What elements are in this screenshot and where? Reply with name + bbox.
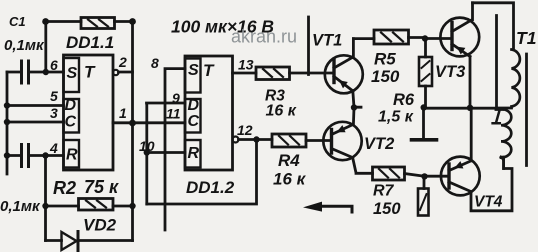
svg-text:R5: R5 — [374, 50, 396, 69]
svg-text:R: R — [188, 145, 200, 162]
svg-text:4: 4 — [49, 140, 58, 156]
svg-text:12: 12 — [237, 122, 253, 138]
svg-text:0,1мк: 0,1мк — [4, 37, 45, 54]
svg-text:R4: R4 — [278, 151, 300, 170]
svg-text:10: 10 — [139, 138, 155, 154]
svg-text:VD2: VD2 — [83, 216, 117, 235]
svg-text:1,5 к: 1,5 к — [378, 109, 414, 126]
svg-text:16 к: 16 к — [273, 170, 307, 189]
svg-text:150: 150 — [371, 67, 400, 86]
svg-text:6: 6 — [50, 57, 58, 73]
svg-text:R6: R6 — [393, 91, 415, 109]
svg-text:S: S — [67, 65, 78, 82]
svg-text:5: 5 — [50, 88, 58, 104]
svg-text:1: 1 — [119, 105, 127, 121]
svg-text:VT1: VT1 — [312, 32, 342, 50]
svg-text:75 к: 75 к — [84, 177, 119, 197]
svg-text:akran.ru: akran.ru — [231, 27, 297, 47]
svg-text:3: 3 — [50, 105, 58, 121]
svg-text:D: D — [65, 97, 77, 114]
svg-text:2: 2 — [118, 54, 127, 70]
svg-text:T: T — [203, 61, 215, 80]
svg-text:8: 8 — [151, 55, 159, 71]
svg-text:0,1мк: 0,1мк — [0, 198, 41, 215]
svg-text:13: 13 — [238, 57, 254, 73]
svg-text:S: S — [188, 62, 199, 79]
svg-text:VT3: VT3 — [435, 63, 465, 81]
svg-text:R: R — [66, 147, 78, 164]
svg-text:C1: C1 — [9, 14, 26, 29]
svg-text:150: 150 — [373, 200, 401, 218]
svg-text:C: C — [188, 113, 200, 130]
svg-text:DD1.1: DD1.1 — [66, 33, 114, 52]
svg-text:9: 9 — [172, 90, 180, 106]
svg-text:R7: R7 — [373, 183, 395, 200]
svg-text:T1: T1 — [516, 28, 536, 48]
svg-text:11: 11 — [166, 106, 181, 122]
svg-text:DD1.2: DD1.2 — [186, 178, 235, 197]
svg-text:16 к: 16 к — [266, 103, 297, 120]
svg-text:VT2: VT2 — [364, 135, 394, 153]
svg-text:VT4: VT4 — [474, 194, 503, 211]
svg-text:T: T — [84, 63, 96, 82]
svg-text:D: D — [188, 97, 200, 114]
svg-text:R2: R2 — [53, 178, 76, 198]
svg-text:C: C — [65, 114, 77, 131]
